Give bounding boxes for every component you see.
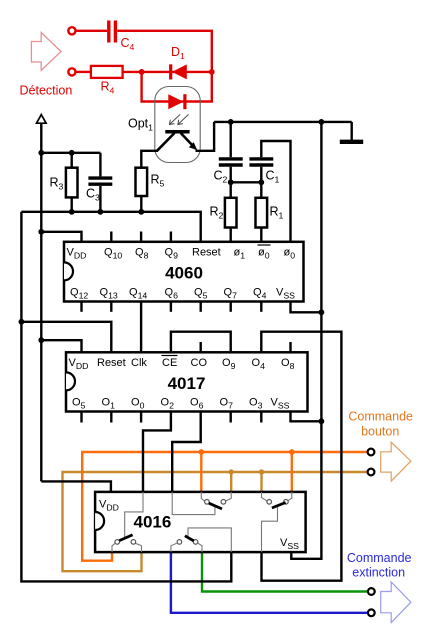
overline CE [162, 355, 178, 357]
svg-text:CO: CO [191, 357, 208, 369]
arrow commande bouton [381, 442, 411, 481]
op-amp U2 4017 box [66, 352, 308, 411]
pin O0 stub [140, 412, 142, 423]
resistor R2 [225, 182, 237, 242]
switch D hooks [171, 543, 177, 552]
svg-text:4060: 4060 [165, 264, 203, 283]
terminal bouton 1 [368, 449, 375, 456]
net ochre: commande bouton return wire [63, 472, 369, 571]
light arrows [170, 114, 189, 124]
pin Q8 stub [140, 232, 142, 243]
switch C hooks [112, 543, 115, 552]
junction R3 top [69, 150, 75, 156]
pin labels 4017 bottom [72, 397, 290, 411]
junction C2 top [228, 119, 234, 125]
wire ochre branch to switch A right pin [230, 472, 232, 492]
junction C1 bottom [258, 179, 264, 185]
wire red D1 row [142, 71, 212, 73]
wire 4017 VSS to ground rail [291, 412, 322, 422]
svg-text:Reset: Reset [192, 247, 221, 259]
wire top rail [214, 121, 352, 123]
resistor R3 [66, 153, 78, 212]
switch D control to left rail [188, 528, 231, 552]
pin Q4 stub [260, 302, 262, 312]
junction left rail 4017 reset [19, 319, 25, 325]
wire ground rail [291, 122, 321, 559]
svg-text:4016: 4016 [134, 513, 172, 532]
wire left rail down to 4016 control pin [21, 212, 231, 582]
wire O2 to 4016 switch C control [143, 412, 171, 492]
wire orange branch to switch A left pin [200, 452, 202, 492]
capacitor C4 [109, 21, 116, 43]
switch C control from O2 [125, 492, 143, 538]
wire red C4 left [76, 30, 107, 32]
junction ochre at 262 [259, 469, 264, 474]
switch A hooks [201, 492, 204, 501]
arrow commande extinction [381, 582, 411, 623]
wire red R4 to node A [123, 71, 142, 73]
switch C [115, 535, 136, 544]
capacitor C1 [249, 141, 290, 242]
notch 4017 [66, 372, 75, 390]
phototransistor of Opt1 [157, 132, 197, 151]
junction VDD 4060 [38, 229, 44, 235]
pin Q6 stub [170, 302, 172, 312]
svg-text:bouton: bouton [361, 425, 399, 439]
junction R3 bottom [69, 209, 75, 215]
junction node A right [209, 69, 215, 75]
junction ochre at 231 [229, 469, 234, 474]
terminal extinction 2 [368, 609, 375, 616]
optocoupler Opt1 body [155, 87, 200, 163]
net green: commande extinction wire [202, 552, 368, 591]
wire VDD 4016 [41, 481, 111, 492]
switch A [205, 500, 226, 509]
wire VDD 4060 [41, 232, 81, 242]
pin labels 4060 top [67, 247, 296, 261]
pin O3 stub [260, 412, 262, 423]
power arrow VCC [37, 115, 47, 124]
pin O5 stub [80, 412, 82, 423]
pin Q9 stub [170, 232, 172, 243]
svg-text:Reset: Reset [97, 357, 126, 369]
junction 4017 VSS [319, 418, 325, 424]
wire VCC vertical line [40, 123, 42, 481]
resistor R1 [256, 182, 268, 242]
junction C2 bottom [228, 179, 234, 185]
terminal detection input C4 [68, 27, 75, 34]
junction R5 bottom [138, 209, 144, 215]
svg-text:CE: CE [162, 357, 177, 369]
overline phi0bar [258, 244, 271, 246]
pin Q5 stub [199, 302, 201, 312]
pin Q13 stub [110, 302, 112, 312]
junction orange at 201 [198, 449, 204, 455]
wire R3-C3 top [41, 152, 100, 154]
diode D1 [171, 64, 187, 79]
wire O6 to 4016 switch A control [172, 412, 201, 492]
svg-text:extinction: extinction [352, 566, 405, 580]
ground [340, 122, 363, 142]
wire Q14 to 4017 Clk [140, 302, 142, 353]
switch B hooks [262, 492, 267, 501]
resistor R4 [91, 66, 123, 78]
wire reset rail to 4060 Reset [21, 212, 200, 242]
pin labels 4017 top [69, 357, 295, 371]
net blue: commande extinction wire [171, 552, 368, 613]
op-amp U1 4060 box [64, 242, 304, 302]
op-amp U3 4016 box [95, 492, 306, 552]
wire ochre branch to switch B left pin [260, 472, 262, 492]
wire 4017 O4 to 4016 switch B control [261, 332, 341, 581]
junction 4060 VSS [319, 309, 325, 315]
switch A control from O6 [172, 492, 215, 515]
switch D [177, 536, 198, 544]
wire red C4 right to node [117, 31, 212, 72]
notch 4060 [64, 262, 73, 280]
wire C2-C1 bottoms [231, 181, 262, 183]
wire orange branch to switch B right pin [291, 452, 293, 492]
pin O8 stub [289, 342, 291, 352]
junction ground rail top [319, 119, 325, 125]
wire red R4 left [76, 71, 91, 73]
junction node A left [139, 69, 145, 75]
junction C3 bottom [98, 209, 104, 215]
svg-text:Détection: Détection [20, 84, 73, 98]
switch B control to O4 [262, 506, 278, 552]
wire 4017 Reset from left rail [21, 322, 111, 353]
terminal extinction 1 [368, 588, 375, 595]
svg-text:4017: 4017 [168, 374, 206, 393]
pin CO stub [199, 342, 201, 352]
net orange: commande bouton wire [82, 452, 368, 561]
pin O7 stub [229, 412, 231, 423]
wire 4060 VSS to ground rail [291, 302, 322, 313]
pin Q12 stub [80, 302, 82, 312]
wire red to opto LED [142, 72, 212, 102]
pin Q10 stub [110, 232, 112, 243]
wire emitter to R5 [141, 151, 158, 168]
capacitor C3 [88, 153, 112, 212]
switch B [267, 500, 288, 508]
pin O1 stub [110, 412, 112, 423]
wire collector to top rail [196, 122, 215, 151]
terminal detection input R4 [68, 68, 75, 75]
junction VCC R3C3 [38, 150, 44, 156]
junction VDD 4017 [38, 337, 44, 343]
svg-text:Clk: Clk [131, 357, 147, 369]
wire 4017 CE to O9 [171, 332, 231, 353]
junction orange at 292 [289, 449, 295, 455]
svg-text:Commande: Commande [347, 551, 412, 565]
notch 4016 [95, 512, 104, 530]
pin labels 4060 bottom [70, 287, 295, 301]
resistor R5 [136, 168, 148, 212]
wire VDD 4017 [41, 340, 81, 352]
terminal bouton 2 [368, 469, 375, 476]
capacitor C2 [219, 122, 243, 182]
pin Q7 stub [229, 302, 231, 312]
LED of optocoupler [168, 94, 185, 109]
svg-text:Commande: Commande [348, 409, 413, 423]
arrow detection [31, 33, 61, 71]
